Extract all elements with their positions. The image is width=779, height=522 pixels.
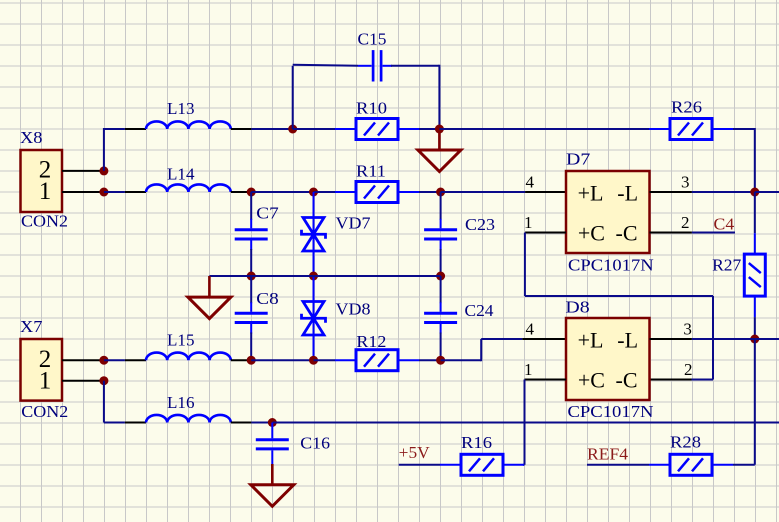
pin wire X7-1 [62, 380, 104, 382]
pin wire D7-4 [525, 191, 566, 193]
wire row C C8 to VD8 [251, 359, 313, 361]
wire R26 to right bus corner [733, 128, 755, 130]
svg-text:3: 3 [683, 320, 692, 339]
wire row C VD8 to R12 [314, 359, 336, 361]
wire R11 to C23 node [419, 191, 441, 193]
svg-text:1: 1 [524, 213, 533, 232]
pin number 4 of D7 [526, 173, 535, 192]
pin number 2 of D8 [684, 360, 693, 379]
wire row D start [104, 422, 125, 424]
pin wire D7-2 [650, 232, 692, 234]
svg-text:C16: C16 [300, 434, 330, 453]
wire loop to D8 pin2 [692, 379, 714, 381]
wire D8 pin1 to R16 [523, 464, 525, 466]
wire C15 right riser [438, 65, 440, 129]
node row C C8 junction [247, 356, 256, 365]
wire to D8 pin4 [481, 338, 522, 340]
wire C4 stub [692, 232, 735, 234]
svg-text:D7: D7 [566, 150, 591, 169]
wire R12 to C24 node [419, 359, 441, 361]
svg-text:R28: R28 [670, 433, 701, 452]
wire X7 pin1 down [103, 381, 105, 423]
inductor L13 [146, 121, 231, 129]
svg-text:VD7: VD7 [336, 214, 372, 233]
label D8 [565, 298, 589, 317]
node X8 pin2 junction [99, 166, 108, 175]
node X7 pin2 junction [99, 356, 108, 365]
ground GND3 [251, 464, 294, 506]
svg-text:CPC1017N: CPC1017N [568, 255, 654, 274]
pin number 1 of D8 [524, 360, 533, 379]
svg-text:L16: L16 [167, 393, 195, 412]
label C8 [256, 289, 278, 308]
label VD8 [336, 300, 371, 319]
capacitor C7 [235, 192, 268, 276]
inductor L16 [146, 415, 231, 423]
wire loop down to D8 pin2 row [712, 296, 714, 380]
svg-text:+C: +C [578, 220, 605, 245]
svg-text:C8: C8 [256, 289, 278, 308]
pin L14 right [231, 191, 252, 193]
node mid VD7 junction [309, 272, 318, 281]
label R10 [356, 99, 387, 118]
label X8 [20, 128, 43, 147]
pin number 2 of D7 [681, 213, 690, 232]
ground GND1 [418, 131, 461, 172]
node R10 right junction [435, 125, 444, 134]
pin L13 left [125, 128, 146, 130]
label X7 [20, 317, 43, 336]
svg-text:1: 1 [39, 178, 52, 205]
label R12 [356, 332, 386, 351]
pin number 4 of D8 [526, 320, 535, 339]
svg-text:-L: -L [617, 180, 638, 205]
wire R10 to ground node [419, 128, 439, 130]
svg-text:1: 1 [39, 367, 52, 394]
wire D8 pin1 down [524, 380, 526, 465]
label L14 [167, 165, 195, 184]
node mid C23 junction [436, 272, 445, 281]
label C24 [465, 301, 495, 320]
resistor R27 [744, 233, 765, 317]
pin L15 right [231, 359, 252, 361]
wire D7 pin1 down [524, 233, 526, 297]
wire row C to riser [441, 359, 482, 361]
wire X8 pin1 to L14 [104, 191, 125, 193]
svg-text:CON2: CON2 [21, 402, 68, 421]
label C23 [465, 215, 495, 234]
pin L14 left [125, 191, 146, 193]
wire right bus down to pin3 row [754, 128, 756, 192]
wire loop horizontal [525, 295, 713, 297]
wire row A L13-node to R10 [293, 128, 335, 130]
pin L15 left [125, 359, 146, 361]
pin wire D7-3 [650, 191, 692, 193]
pin number 1 of X8 [39, 178, 52, 205]
pin wire D7-1 [525, 232, 566, 234]
pin number 2 of X8 [39, 157, 52, 184]
wire X8 pin2 up to row A [103, 128, 105, 171]
node C15 left junction [288, 125, 297, 134]
wire right bus to R27 [754, 192, 756, 233]
svg-text:REF4: REF4 [587, 445, 629, 464]
svg-text:CON2: CON2 [21, 212, 68, 231]
label CPC1017N of D7 [568, 255, 654, 274]
pin label +L of D8 [578, 327, 604, 352]
wire row D long to right edge [272, 422, 779, 424]
pin wire X7-2 [62, 359, 104, 361]
pin label -C of D8 [616, 367, 638, 392]
capacitor C16 [256, 423, 289, 465]
net label REF4 [587, 445, 629, 464]
wire L13 to C15 node [251, 128, 292, 130]
svg-text:L15: L15 [167, 331, 195, 350]
label R28 [670, 433, 701, 452]
resistor R12 [335, 350, 419, 371]
wire row A to R26 [439, 128, 649, 130]
node row B C23 junction [436, 188, 445, 197]
label R16 [461, 433, 492, 452]
label VD7 [336, 214, 372, 233]
label C7 [256, 204, 279, 223]
op-amp U-D7 optocoupler [566, 171, 650, 253]
svg-text:CPC1017N: CPC1017N [568, 402, 654, 421]
svg-text:X7: X7 [20, 317, 43, 336]
wire C15 top right [391, 65, 439, 67]
diode VD8 [302, 276, 326, 360]
pin wire D8-1 [525, 379, 567, 381]
wire C15 top left [293, 65, 358, 66]
node C16 junction [268, 418, 277, 427]
svg-text:C15: C15 [358, 29, 387, 48]
pin label +C of D7 [578, 220, 605, 245]
wire row B VD7 to R11 [314, 191, 336, 193]
pin label -L of D8 [617, 327, 638, 352]
node X8 pin1 junction [99, 188, 108, 197]
wire right bus stub row B [755, 191, 779, 193]
wire +5V stub [399, 464, 440, 466]
wire right bus R28 up [754, 339, 756, 465]
label L15 [167, 331, 195, 350]
svg-text:1: 1 [524, 360, 533, 379]
svg-text:X8: X8 [20, 128, 43, 147]
wire R28 to right bus [733, 464, 755, 466]
capacitor C15 [358, 50, 392, 81]
wire riser up to pin4 row [480, 339, 482, 361]
pin number 3 of D8 [683, 320, 692, 339]
node row B C7 junction [247, 188, 256, 197]
pin L16 left [125, 422, 146, 424]
label C15 [358, 29, 387, 48]
capacitor C8 [235, 276, 268, 360]
node row C C24 junction [436, 356, 445, 365]
op-amp U-D8 optocoupler [566, 318, 650, 400]
pin wire X8-1 [62, 191, 104, 193]
pin number 2 of X7 [39, 346, 52, 373]
svg-text:+5V: +5V [399, 443, 431, 462]
resistor R26 [649, 119, 733, 140]
connector X8 [21, 150, 63, 212]
inductor L14 [146, 184, 231, 192]
pin number 3 of D7 [681, 173, 690, 192]
pin L16 right [231, 422, 252, 424]
svg-text:C7: C7 [256, 204, 279, 223]
net label C4 [714, 215, 735, 234]
label R11 [356, 162, 386, 181]
svg-text:L14: L14 [167, 165, 195, 184]
pin label -L of D7 [617, 180, 638, 205]
label L16 [167, 393, 195, 412]
pin wire X8-2 [62, 170, 104, 172]
wire C15 left riser [292, 66, 294, 129]
svg-text:D8: D8 [565, 298, 589, 317]
label CON2 of X7 [21, 402, 68, 421]
svg-text:2: 2 [681, 213, 690, 232]
svg-text:R11: R11 [356, 162, 386, 181]
wire row B to D7 pin4 [441, 191, 525, 193]
wire D7 pin3 to right bus [692, 191, 755, 193]
wire REF4 stub [587, 464, 649, 466]
svg-text:R16: R16 [461, 433, 492, 452]
ground GND2 [188, 276, 231, 319]
pin label +L of D7 [578, 180, 604, 205]
diode VD7 [302, 192, 326, 276]
node right bus row 339 [750, 335, 759, 344]
svg-text:L13: L13 [167, 99, 195, 118]
svg-text:-C: -C [616, 367, 638, 392]
node row B VD7 junction [309, 188, 318, 197]
wire middle row [209, 275, 440, 277]
svg-text:4: 4 [526, 320, 535, 339]
svg-text:C4: C4 [714, 215, 735, 234]
wire right bus stub row 339 [755, 338, 779, 340]
pin number 1 of D7 [524, 213, 533, 232]
label CPC1017N of D8 [568, 402, 654, 421]
svg-text:R26: R26 [671, 98, 702, 117]
resistor R11 [335, 182, 419, 203]
inductor L15 [146, 353, 231, 361]
label R26 [671, 98, 702, 117]
svg-text:+L: +L [578, 327, 604, 352]
capacitor C23 [424, 192, 457, 276]
resistor R28 [649, 454, 733, 475]
resistor R16 [440, 454, 524, 475]
node right bus row B [750, 188, 759, 197]
pin label +C of D8 [578, 367, 605, 392]
node mid C7 junction [247, 272, 256, 281]
label C16 [300, 434, 330, 453]
pin wire D8-2 [650, 379, 692, 381]
label CON2 of X8 [21, 212, 68, 231]
pin number 1 of X7 [39, 367, 52, 394]
pin wire D8-3 [650, 338, 692, 340]
svg-text:C24: C24 [465, 301, 495, 320]
svg-text:VD8: VD8 [336, 300, 371, 319]
svg-text:4: 4 [526, 173, 535, 192]
svg-text:+L: +L [578, 180, 604, 205]
svg-text:C23: C23 [465, 215, 495, 234]
svg-text:R27: R27 [712, 256, 742, 275]
svg-text:2: 2 [684, 360, 693, 379]
pin label -C of D7 [616, 220, 638, 245]
svg-text:-L: -L [617, 327, 638, 352]
label L13 [167, 99, 195, 118]
wire X7 pin2 to L15 [104, 359, 125, 361]
label D7 [566, 150, 591, 169]
pin L13 right [231, 128, 252, 130]
node X7 pin1 junction [99, 376, 108, 385]
svg-text:3: 3 [681, 173, 690, 192]
resistor R10 [335, 119, 419, 140]
pin wire D8-4 [522, 338, 566, 340]
capacitor C24 [424, 276, 457, 360]
connector X7 [21, 339, 63, 401]
net label +5V [399, 443, 431, 462]
label R27 [712, 256, 742, 275]
node row C VD8 junction [309, 356, 318, 365]
wire R27 to right bus node [754, 317, 756, 339]
svg-text:R10: R10 [356, 99, 387, 118]
svg-text:+C: +C [578, 367, 605, 392]
wire D8 pin3 to right bus [692, 338, 755, 340]
wire L16 to C16 node [251, 422, 272, 424]
svg-text:-C: -C [616, 220, 638, 245]
wire row A to L13 [104, 128, 125, 130]
wire row B C7 to VD7 [251, 191, 313, 193]
svg-text:R12: R12 [356, 332, 386, 351]
